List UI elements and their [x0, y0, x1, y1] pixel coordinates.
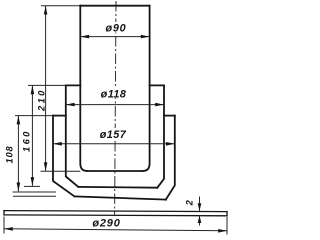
arrow left dim ø290	[4, 227, 13, 231]
wire: left step ø90 to ø118	[66, 84, 81, 86]
svg-text:160: 160	[21, 129, 31, 152]
arrow left dim ø90	[80, 35, 89, 39]
wire: ø118 right wall with chamfer into line2	[157, 85, 164, 187]
ext: line1 left extension for dim 210	[41, 170, 81, 172]
wire: ø118 left wall with chamfer into line2	[66, 85, 79, 186]
arrow down dim108	[17, 183, 21, 192]
svg-text:ø157: ø157	[100, 129, 127, 141]
part outline: stepped shell	[53, 6, 175, 200]
dimension ø90 horizontal line	[80, 36, 149, 38]
wire: ø157 section bottom (line3)	[75, 196, 166, 199]
ext: step y116 left extension for dim 108	[15, 115, 53, 117]
wire: top closed end of ø90 section	[80, 5, 149, 7]
arrow right dim ø157	[166, 142, 175, 146]
flange: flat blank ø290 x 2	[4, 211, 227, 216]
arrow up dim108	[17, 116, 21, 125]
svg-text:ø290: ø290	[92, 218, 120, 230]
svg-text:210: 210	[36, 88, 46, 112]
centerline (vertical dash-dot axis)	[115, 1, 116, 215]
arrow down dim2	[198, 203, 202, 211]
ext: step y85 left extension for dim 160	[28, 84, 66, 86]
wire: ø90 right wall with bottom corner into line1	[143, 6, 150, 171]
extension lines (thin)	[4, 6, 227, 235]
arrow up dim160	[31, 85, 35, 94]
wire: right step ø90 to ø118	[150, 84, 164, 86]
arrow up dim2	[198, 215, 202, 223]
wire: ø90 left wall with bottom corner into line1	[80, 6, 87, 171]
svg-text:ø90: ø90	[105, 22, 126, 34]
ext: ø290 right extension below flange	[226, 217, 228, 235]
svg-text:2: 2	[184, 199, 194, 206]
svg-text:ø118: ø118	[101, 89, 127, 101]
label backgrounds	[104, 22, 128, 33]
arrow right dim ø90	[141, 35, 150, 39]
ext: top line left extension for dim 210	[41, 5, 80, 7]
dimension 2 stems (flange thickness)	[199, 197, 201, 226]
arrow right dim ø118	[155, 103, 164, 107]
wire: ø90 section bottom (line1)	[87, 170, 142, 172]
ext: ø290 left extension below flange	[3, 217, 5, 234]
dimension 160 vertical line	[31, 85, 33, 185]
dimension ø118 horizontal line	[66, 104, 164, 106]
wire: ø157 right wall with chamfer into line3	[166, 116, 175, 200]
dimension 108 vertical line	[17, 116, 19, 192]
ext: line3 left extension	[13, 195, 56, 197]
wire: ø118 section bottom (line2)	[78, 186, 157, 189]
arrow up dim210	[44, 6, 48, 15]
wire: ø157 left wall with chamfer into line3	[53, 116, 75, 197]
ext: line2 left extension for dim 160	[24, 185, 40, 187]
arrow left dim ø118	[66, 103, 75, 107]
arrow right dim ø290	[218, 229, 227, 233]
wire: left step ø118 to ø157	[53, 115, 66, 117]
dimension ø157 horizontal line	[53, 143, 175, 145]
dimension 210 vertical line	[45, 6, 47, 172]
svg-text:108: 108	[4, 146, 14, 164]
arrow down dim210	[44, 162, 48, 171]
ext: inner-bottom extension for dim 108	[13, 191, 56, 193]
dimension ø290 horizontal line	[4, 229, 227, 231]
arrow down dim160	[31, 177, 35, 186]
wire: right step ø118 to ø157	[164, 115, 175, 117]
arrow left dim ø157	[53, 142, 62, 146]
